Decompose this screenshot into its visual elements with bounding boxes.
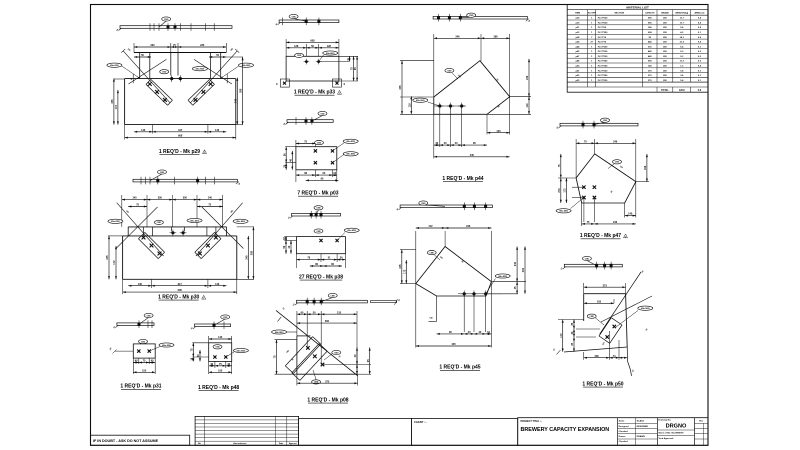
svg-text:WEIGHT(kg): WEIGHT(kg) (675, 13, 688, 15)
svg-text:385: 385 (251, 250, 254, 255)
svg-text:LENGTH: LENGTH (645, 13, 654, 15)
svg-text:6No.M20: 6No.M20 (190, 220, 199, 222)
svg-text:140: 140 (132, 197, 137, 200)
svg-text:317: 317 (178, 283, 183, 286)
svg-text:345: 345 (234, 98, 237, 103)
svg-text:FL17*10: FL17*10 (598, 37, 607, 39)
svg-text:163: 163 (597, 300, 602, 303)
svg-text:1 REQ'D - Mk p33: 1 REQ'D - Mk p33 (294, 90, 335, 96)
svg-text:140: 140 (628, 213, 633, 216)
svg-text:6No.M20: 6No.M20 (196, 69, 205, 71)
svg-text:FL17*250: FL17*250 (598, 75, 608, 77)
plate Mk p33 (276, 39, 359, 96)
svg-text:CMD: CMD (469, 15, 474, 17)
svg-text:CMD: CMD (223, 317, 228, 319)
svg-text:140: 140 (496, 130, 501, 133)
svg-text:246: 246 (613, 221, 618, 224)
svg-text:CMD: CMD (316, 231, 321, 233)
svg-text:146: 146 (138, 283, 143, 286)
svg-text:128: 128 (327, 45, 332, 48)
svg-text:317: 317 (178, 129, 183, 132)
svg-text:GRADE: GRADE (661, 12, 669, 15)
svg-text:246: 246 (466, 225, 471, 228)
svg-text:FL17*530: FL17*530 (598, 23, 608, 25)
svg-text:6No.M20: 6No.M20 (326, 53, 335, 55)
svg-text:FL17*250: FL17*250 (598, 61, 608, 63)
svg-text:215: 215 (337, 311, 342, 314)
svg-text:270: 270 (558, 188, 561, 193)
svg-text:FL17*530: FL17*530 (598, 46, 608, 48)
svg-text:Checked: Checked (619, 441, 629, 443)
svg-text:385: 385 (240, 88, 243, 93)
svg-text:CMD: CMD (590, 316, 595, 318)
svg-text:CMD: CMD (297, 55, 302, 57)
svg-text:6No.M20: 6No.M20 (346, 141, 355, 143)
svg-text:240: 240 (526, 75, 529, 80)
svg-text:6No.M20: 6No.M20 (347, 230, 356, 232)
svg-text:Amendments: Amendments (233, 442, 247, 445)
svg-text:Tech Approved: Tech Approved (658, 437, 674, 440)
svg-text:6No.M20: 6No.M20 (237, 350, 246, 352)
svg-text:No OFF: No OFF (588, 13, 597, 15)
material list table (567, 5, 708, 93)
bar detail B2 (133, 170, 242, 186)
svg-text:CMD: CMD (585, 258, 590, 260)
svg-text:375: 375 (325, 380, 330, 383)
svg-text:1 REQ'D - Mk p31: 1 REQ'D - Mk p31 (120, 384, 161, 390)
svg-text:172: 172 (113, 260, 116, 265)
svg-text:40: 40 (130, 78, 133, 80)
svg-text:608: 608 (178, 135, 183, 138)
svg-text:ITEM: ITEM (575, 13, 580, 15)
svg-text:Drawing No.: Drawing No. (658, 420, 671, 422)
svg-text:CMD: CMD (215, 347, 220, 349)
bar detail B5 (288, 206, 341, 220)
svg-text:146: 146 (215, 129, 220, 132)
bar detail B3 (275, 14, 338, 26)
svg-text:172: 172 (564, 188, 567, 193)
svg-text:CMD: CMD (316, 208, 321, 210)
svg-text:AREA m2: AREA m2 (694, 12, 705, 15)
svg-text:608: 608 (178, 289, 183, 292)
svg-text:1 REQ'D - Mk p08: 1 REQ'D - Mk p08 (307, 398, 348, 404)
svg-text:CMD: CMD (162, 72, 167, 74)
plate Mk p48 (190, 315, 248, 391)
svg-text:CMD: CMD (157, 222, 162, 224)
svg-text:27 REQ'D - Mk p38: 27 REQ'D - Mk p38 (299, 275, 343, 281)
svg-text:146: 146 (215, 283, 220, 286)
svg-text:DRGNO: DRGNO (666, 424, 687, 430)
svg-text:FL17*530: FL17*530 (598, 70, 608, 72)
svg-text:MATERIAL LIST: MATERIAL LIST (626, 5, 649, 9)
svg-text:158: 158 (594, 355, 599, 358)
svg-text:DESIGNED: DESIGNED (637, 426, 649, 428)
svg-text:6No.M20: 6No.M20 (559, 211, 568, 213)
plate Mk p29 (107, 43, 254, 155)
svg-text:6No.M20: 6No.M20 (275, 332, 284, 334)
svg-text:350: 350 (183, 197, 188, 200)
svg-text:CMD: CMD (430, 252, 435, 254)
svg-text:BREWERY CAPACITY EXPANSION: BREWERY CAPACITY EXPANSION (521, 427, 610, 433)
svg-text:CMD: CMD (603, 120, 608, 122)
svg-text:140: 140 (218, 336, 223, 339)
svg-text:6No.M20: 6No.M20 (236, 221, 245, 223)
svg-text:FL17*75: FL17*75 (598, 42, 607, 44)
svg-text:302: 302 (522, 267, 525, 272)
note box IF IN DOUBT (91, 435, 190, 445)
svg-text:CMD: CMD (160, 172, 165, 174)
svg-text:1: 1 (625, 236, 626, 238)
svg-text:Sheet of NO. NO-SHEETS: Sheet of NO. NO-SHEETS (658, 431, 684, 434)
svg-text:6No.M20: 6No.M20 (346, 154, 355, 156)
svg-text:SCALE: SCALE (637, 420, 645, 423)
plate Mk p44 (399, 34, 531, 182)
svg-text:240: 240 (644, 165, 647, 170)
svg-text:140: 140 (208, 197, 213, 200)
svg-text:110: 110 (526, 103, 529, 108)
svg-text:1 REQ'D - Mk p47: 1 REQ'D - Mk p47 (580, 233, 621, 239)
svg-text:445: 445 (452, 343, 457, 346)
svg-text:1 REQ'D - Mk p48: 1 REQ'D - Mk p48 (198, 385, 239, 391)
svg-text:350: 350 (158, 197, 163, 200)
svg-text:345: 345 (106, 255, 109, 260)
svg-text:CMD: CMD (146, 315, 151, 317)
svg-text:FL17*250: FL17*250 (598, 66, 608, 68)
svg-text:CMD: CMD (317, 142, 322, 144)
bar detail B6 (293, 293, 401, 306)
svg-text:172: 172 (560, 333, 563, 338)
svg-text:6No.M20: 6No.M20 (110, 65, 119, 67)
svg-text:FL17*530: FL17*530 (598, 80, 608, 82)
svg-text:6No.M20: 6No.M20 (242, 65, 251, 67)
svg-text:7 REQ'D - Mk p03: 7 REQ'D - Mk p03 (297, 191, 338, 197)
svg-text:345: 345 (399, 264, 402, 269)
bar detail B4 (283, 111, 333, 125)
plate Mk p30 (106, 195, 254, 301)
spare box (299, 419, 412, 446)
svg-text:No.: No. (198, 443, 202, 445)
svg-text:172: 172 (403, 269, 406, 274)
svg-text:230: 230 (200, 44, 205, 47)
svg-text:CMD: CMD (141, 341, 146, 343)
svg-text:Designed: Designed (619, 426, 630, 428)
bar detail B10 (561, 256, 623, 270)
svg-text:345: 345 (245, 255, 248, 260)
svg-text:172: 172 (115, 105, 118, 110)
svg-text:445: 445 (470, 154, 475, 157)
svg-text:FL17*530: FL17*530 (598, 51, 608, 53)
svg-text:6No.M20: 6No.M20 (416, 100, 425, 102)
svg-text:CMD: CMD (615, 162, 620, 164)
plate Mk p50 (553, 269, 653, 387)
plate Mk p03 (283, 139, 358, 196)
svg-text:345: 345 (111, 99, 114, 104)
svg-text:Drawn: Drawn (619, 436, 626, 438)
svg-text:146: 146 (141, 129, 146, 132)
svg-text:CMD: CMD (334, 352, 339, 354)
svg-text:188: 188 (493, 35, 498, 38)
svg-text:CMD: CMD (447, 70, 452, 72)
svg-text:IF IN DOUBT - ASK DO NOT ASSUM: IF IN DOUBT - ASK DO NOT ASSUME (93, 439, 159, 443)
svg-text:FL17*250: FL17*250 (598, 32, 608, 34)
svg-text:1 REQ'D - Mk p44: 1 REQ'D - Mk p44 (442, 176, 483, 182)
svg-text:1 REQ'D - Mk p45: 1 REQ'D - Mk p45 (439, 365, 480, 371)
svg-text:Checked: Checked (619, 431, 629, 433)
bar detail B8 (396, 201, 492, 211)
plate Mk p45 (399, 225, 526, 371)
svg-text:246: 246 (613, 140, 618, 143)
svg-text:TOTAL: TOTAL (661, 89, 669, 92)
svg-text:FL17*60: FL17*60 (598, 27, 607, 29)
svg-text:1: 1 (204, 152, 205, 154)
svg-text:DRAWN: DRAWN (637, 435, 646, 438)
client box (412, 419, 518, 446)
svg-text:SECTION: SECTION (614, 13, 624, 15)
svg-text:240: 240 (514, 261, 517, 266)
svg-text:FL17*530: FL17*530 (598, 18, 608, 20)
svg-text:140: 140 (429, 317, 432, 320)
svg-text:128: 128 (294, 45, 299, 48)
svg-text:6No.M20: 6No.M20 (162, 345, 171, 347)
svg-text:608: 608 (310, 40, 315, 43)
svg-text:172: 172 (428, 225, 433, 228)
bar detail B7 (433, 13, 531, 23)
svg-text:45: 45 (276, 83, 279, 85)
svg-text:155: 155 (218, 369, 223, 372)
plate Mk p08 (272, 308, 371, 404)
svg-text:1 REQ'D - Mk p30: 1 REQ'D - Mk p30 (158, 295, 199, 301)
svg-text:6No.M20: 6No.M20 (111, 221, 120, 223)
svg-text:1: 1 (203, 298, 204, 300)
plate Mk p31 (110, 313, 174, 389)
svg-text:Scale: Scale (619, 421, 626, 423)
svg-text:345: 345 (399, 85, 402, 90)
svg-text:1 REQ'D - Mk p29: 1 REQ'D - Mk p29 (159, 149, 200, 155)
svg-text:110: 110 (408, 103, 411, 108)
svg-text:6No.M20: 6No.M20 (498, 276, 507, 278)
svg-text:CLIENT :--: CLIENT :-- (414, 420, 427, 424)
svg-text:CMD: CMD (291, 16, 296, 18)
title block (518, 418, 708, 446)
svg-text:246: 246 (455, 35, 460, 38)
svg-text:230: 230 (150, 44, 155, 47)
svg-text:1: 1 (339, 93, 340, 95)
svg-text:45: 45 (343, 83, 346, 85)
svg-text:Approved: Approved (289, 442, 297, 445)
svg-text:155: 155 (142, 369, 147, 372)
svg-text:6No.M20: 6No.M20 (641, 308, 650, 310)
svg-text:PROJECT TITLE :--: PROJECT TITLE :-- (521, 420, 543, 423)
bar detail B9 (556, 118, 638, 129)
plate Mk p47 (556, 139, 649, 239)
plate Mk p38 (283, 228, 359, 280)
bar detail B1 (116, 17, 232, 32)
svg-text:CMD: CMD (164, 19, 169, 21)
svg-text:CMD: CMD (331, 295, 336, 297)
svg-text:373: 373 (603, 284, 608, 287)
svg-text:CMD: CMD (421, 203, 426, 205)
svg-text:360: 360 (325, 320, 330, 323)
svg-text:CMD: CMD (320, 113, 325, 115)
svg-text:18: 18 (348, 58, 350, 60)
svg-text:FL17*530: FL17*530 (598, 56, 608, 58)
svg-text:1 REQ'D - Mk p50: 1 REQ'D - Mk p50 (582, 382, 623, 388)
svg-text:126.6: 126.6 (679, 90, 685, 92)
amendments table (195, 416, 299, 445)
